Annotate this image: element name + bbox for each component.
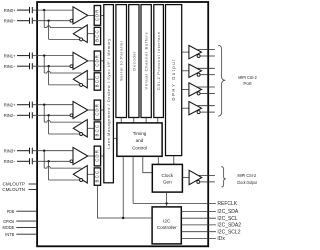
wire RIN2- to EQ inverting input <box>33 114 70 116</box>
CDR block channel 3 <box>94 146 100 166</box>
wire CDR to lane management <box>101 109 104 111</box>
wire back-channel driver input from BCC <box>87 78 94 80</box>
op-amp A2B back-channel driver <box>73 120 87 137</box>
wire tap RIN0+ down to driver output A <box>43 10 45 27</box>
svg-text:RIN2−: RIN2− <box>4 113 16 118</box>
svg-text:INTB: INTB <box>5 232 14 237</box>
BCC block channel 1 <box>94 73 100 90</box>
inverted output bubble of A1B <box>80 83 83 86</box>
node junction REFCLK/clock gen <box>165 202 167 204</box>
node junction on RIN2- <box>47 114 49 116</box>
op-amp A0B back-channel driver <box>73 25 87 42</box>
node junction bus/timing <box>122 217 124 219</box>
wire RIN2- input lead <box>17 114 29 116</box>
inverting input bubble of A3A <box>70 160 73 163</box>
node junction on RIN1+ <box>43 54 45 56</box>
wire tap RIN1- down to driver output B <box>48 66 50 85</box>
label MIPI CSI-2 Port <box>238 75 257 86</box>
wire lane 0 output + <box>197 49 215 51</box>
svg-text:I2C_SCL2: I2C_SCL2 <box>217 230 240 236</box>
svg-text:BCC: BCC <box>95 171 100 183</box>
svg-text:Control: Control <box>132 146 147 151</box>
node junction on RIN0+ <box>43 9 45 11</box>
svg-text:PDB: PDB <box>7 209 14 214</box>
wire tap RIN2+ down to driver output A <box>43 105 45 122</box>
wire driver output A with crossover hop <box>44 120 81 122</box>
wire RIN2+ to EQ input <box>33 104 73 106</box>
wire driver inverted output B <box>49 133 80 135</box>
svg-text:Gen: Gen <box>163 179 172 184</box>
BCC block channel 3 <box>94 168 100 185</box>
wire lane 2 output - <box>200 92 215 94</box>
svg-text:MIPI CSI-2: MIPI CSI-2 <box>238 75 257 80</box>
wire I2C controller to pin IDx <box>181 237 216 239</box>
svg-text:I2C_SDA: I2C_SDA <box>217 209 239 215</box>
svg-text:MODE: MODE <box>3 225 15 230</box>
wire RIN2+ input lead <box>17 104 29 106</box>
inverting input bubble of A0A <box>70 19 73 22</box>
svg-text:RIN2+: RIN2+ <box>4 102 16 107</box>
CDR block channel 1 <box>94 51 100 71</box>
CSI-2 protocol interface block <box>154 5 164 118</box>
svg-text:CMLOUTP: CMLOUTP <box>3 182 25 187</box>
wire tap RIN3- down to driver output B <box>48 161 50 180</box>
wire RIN1- input lead <box>17 65 29 67</box>
inverting input bubble of A2A <box>70 114 73 117</box>
op-amp U2C CSI-2 lane output buffer <box>189 83 202 96</box>
wire RIN0- input lead <box>17 20 29 22</box>
wire tap RIN1+ down to driver output A <box>43 56 45 73</box>
svg-text:BCC: BCC <box>95 30 100 42</box>
op-amp A0A equalizer amplifier <box>73 7 88 24</box>
brace MIPI CSI-2 clock group <box>221 167 226 187</box>
wire EQ output to CDR <box>88 14 94 16</box>
wire RIN1+ to EQ input <box>33 55 73 57</box>
wire block to timing/control <box>120 118 122 123</box>
svg-text:I2C_SCL: I2C_SCL <box>217 216 238 222</box>
wire RIN3- to EQ inverting input <box>33 160 70 162</box>
wire CDR to lane management <box>101 155 104 157</box>
wire driver output A with crossover hop <box>44 71 81 73</box>
BCC block channel 0 <box>94 27 100 44</box>
wire lane 3 output + <box>197 105 215 107</box>
inverted output bubble lane 2 <box>197 92 200 95</box>
capacitor C3 (AC coupling, RIN1-) <box>30 63 33 69</box>
wire lane management to timing/control <box>113 137 117 139</box>
wire RIN1+ input lead <box>17 55 29 57</box>
capacitor C0 (AC coupling, RIN0+) <box>30 7 33 13</box>
wire RIN1- to EQ inverting input <box>33 65 70 67</box>
wire driver inverted output B <box>49 84 80 86</box>
wire DPHY to lane buffer 3 <box>182 107 189 109</box>
svg-text:CDR: CDR <box>95 10 100 22</box>
svg-text:DPHY Output: DPHY Output <box>171 59 176 101</box>
svg-text:CMLOUTN: CMLOUTN <box>2 187 25 192</box>
brace MIPI CSI-2 port group <box>218 45 225 116</box>
wire driver output A with crossover hop <box>44 166 81 168</box>
svg-text:RIN1−: RIN1− <box>4 64 16 69</box>
svg-text:Lane Management / Deskew / Syn: Lane Management / Deskew / Sync I/F / Me… <box>106 39 111 149</box>
CDR block channel 2 <box>94 100 100 120</box>
wire RIN3- input lead <box>17 160 29 162</box>
node junction on RIN3+ <box>43 150 45 152</box>
svg-text:CDR: CDR <box>95 150 100 162</box>
op-amp U2A CSI-2 lane output buffer <box>189 45 202 58</box>
wire timing to clock gen top <box>157 156 159 164</box>
inverted output bubble lane 0 <box>197 55 200 58</box>
I2C controller block <box>152 207 181 244</box>
svg-text:Clock: Clock <box>162 173 174 178</box>
node junction on RIN0- <box>47 20 49 22</box>
svg-text:GPIOs: GPIOs <box>3 219 15 224</box>
DPHY output block <box>166 5 182 156</box>
wire BCC3 to I2C controller bus <box>97 185 152 218</box>
op-amp U3 CSI-2 clock output buffer <box>189 170 202 184</box>
wire lane 1 output + <box>197 67 215 69</box>
wire driver inverted output B <box>49 179 80 181</box>
op-amp A2A equalizer amplifier <box>73 101 88 118</box>
op-amp A3B back-channel driver <box>73 166 87 183</box>
wire I2C controller to pin I2C_SCL2 <box>181 231 216 233</box>
op-amp A1A equalizer amplifier <box>73 52 88 69</box>
wire DPHY to lane buffer 0 <box>182 51 189 53</box>
capacitor C6 (AC coupling, RIN3+) <box>30 148 33 154</box>
capacitor C4 (AC coupling, RIN2+) <box>30 102 33 108</box>
wire I2C controller to pin I2C_SDA <box>181 210 216 212</box>
svg-text:CDR: CDR <box>95 104 100 116</box>
wire clock output + <box>198 174 215 176</box>
op-amp A3A equalizer amplifier <box>73 147 88 164</box>
svg-text:Virtual Channel Buffers: Virtual Channel Buffers <box>144 33 149 90</box>
wire clock gen to REFCLK node <box>166 192 168 203</box>
inverted output bubble of A2B <box>80 133 83 136</box>
node junction on RIN1- <box>47 65 49 67</box>
pin GPIOs stub <box>16 220 37 222</box>
pin CMLOUTN stub <box>29 189 38 191</box>
wire timing to clock gen left <box>143 156 153 172</box>
wire tap RIN2- down to driver output B <box>48 115 50 134</box>
wire lane 1 output - <box>200 74 215 76</box>
label MIPI CSI-2 Clock Output <box>237 173 257 185</box>
op-amp A1B back-channel driver <box>73 71 87 88</box>
inverted output bubble of A0B <box>80 38 83 41</box>
BCC block channel 2 <box>94 122 100 139</box>
wire lane 0 output - <box>200 55 215 57</box>
svg-text:IDx: IDx <box>217 236 225 242</box>
wire I2C controller to pin I2C_SDA2 <box>181 224 216 226</box>
wire I2C controller to pin I2C_SCL <box>181 217 216 219</box>
wire DPHY to lane buffer 1 <box>182 70 189 72</box>
svg-text:BCC: BCC <box>95 76 100 88</box>
wire block to timing/control <box>157 118 159 123</box>
wire EQ output to CDR <box>88 155 94 157</box>
svg-text:RIN0−: RIN0− <box>4 18 16 23</box>
svg-text:Timing: Timing <box>133 131 147 136</box>
wire timing to control bus <box>122 156 124 218</box>
capacitor C1 (AC coupling, RIN0-) <box>30 18 33 24</box>
inverted output bubble of A3B <box>80 179 83 182</box>
wire lane 3 output - <box>200 111 215 113</box>
virtual channel buffers block <box>141 5 151 118</box>
svg-text:BCC: BCC <box>95 125 100 137</box>
wire back-channel driver input from BCC <box>87 173 94 175</box>
wire EQ output to CDR <box>88 109 94 111</box>
wire CDR to lane management <box>101 14 104 16</box>
svg-text:Port: Port <box>243 81 252 86</box>
pin MODE stub <box>16 226 37 228</box>
capacitor C2 (AC coupling, RIN1+) <box>30 53 33 59</box>
wire RIN3+ input lead <box>17 150 29 152</box>
wire block to timing/control <box>133 118 135 123</box>
lane management block <box>104 5 114 183</box>
svg-text:RIN3+: RIN3+ <box>4 148 16 153</box>
wire REFCLK node to I2C controller <box>166 203 168 207</box>
svg-text:Serial to Parallel: Serial to Parallel <box>119 41 124 81</box>
svg-text:RIN0+: RIN0+ <box>4 8 16 13</box>
capacitor C5 (AC coupling, RIN2-) <box>30 112 33 118</box>
wire clock gen to clock buffer <box>182 177 189 179</box>
pin PDB stub <box>16 210 37 212</box>
capacitor C7 (AC coupling, RIN3-) <box>30 158 33 164</box>
wire RIN0+ to EQ input <box>33 9 73 11</box>
wire clock output - <box>200 181 215 183</box>
svg-text:I2C: I2C <box>163 219 171 224</box>
node junction on RIN3- <box>47 160 49 162</box>
wire block to timing/control <box>145 118 147 123</box>
node junction on RIN2+ <box>43 104 45 106</box>
wire RIN0+ input lead <box>17 9 29 11</box>
svg-text:Clock Output: Clock Output <box>237 180 257 185</box>
inverted output bubble clock <box>197 180 200 183</box>
svg-text:CDR: CDR <box>95 55 100 67</box>
wire CDR to lane management <box>101 60 104 62</box>
svg-text:Controller: Controller <box>157 225 177 230</box>
inverting input bubble of A1A <box>70 65 73 68</box>
wire RIN0- to EQ inverting input <box>33 20 70 22</box>
wire DPHY to lane buffer 2 <box>182 89 189 91</box>
svg-text:RIN3−: RIN3− <box>4 159 16 164</box>
wire back-channel driver input from BCC <box>87 33 94 35</box>
op-amp U2D CSI-2 lane output buffer <box>189 102 202 115</box>
svg-text:CSI-2 Protocol Interface: CSI-2 Protocol Interface <box>156 31 161 90</box>
inverted output bubble lane 1 <box>197 73 200 76</box>
pin INTB stub <box>16 233 37 235</box>
wire timing to REFCLK net <box>132 156 134 203</box>
wire back-channel driver input from BCC <box>87 127 94 129</box>
wire RIN3+ to EQ input <box>33 150 73 152</box>
timing and control block <box>117 123 162 156</box>
svg-text:and: and <box>136 138 144 143</box>
svg-text:REFCLK: REFCLK <box>217 201 237 207</box>
wire driver output A with crossover hop <box>44 26 81 28</box>
wire tap RIN0- down to driver output B <box>48 21 50 40</box>
decoder block <box>129 5 139 118</box>
op-amp U2B CSI-2 lane output buffer <box>189 64 202 77</box>
chip body U1 outline <box>37 2 208 246</box>
svg-text:I2C_SDA2: I2C_SDA2 <box>217 223 241 229</box>
wire REFCLK net <box>133 202 216 204</box>
wire DPHY to clock gen <box>173 156 175 165</box>
wire EQ output to CDR <box>88 60 94 62</box>
inverted output bubble lane 3 <box>197 111 200 114</box>
clock gen block <box>152 164 182 192</box>
svg-text:RIN1+: RIN1+ <box>4 53 16 58</box>
wire lane 2 output + <box>197 86 215 88</box>
pin CMLOUTP stub <box>29 183 38 185</box>
svg-text:MIPI CSI-2: MIPI CSI-2 <box>238 173 257 178</box>
serial-to-parallel block <box>116 5 127 118</box>
wire tap RIN3+ down to driver output A <box>43 151 45 168</box>
wire driver inverted output B <box>49 38 80 40</box>
CDR block channel 0 <box>94 6 100 26</box>
